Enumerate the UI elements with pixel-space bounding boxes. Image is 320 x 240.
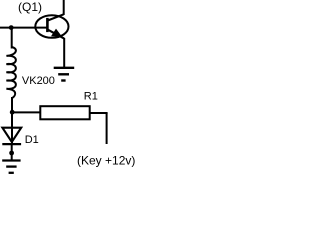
- ground upper (emitter) bar1: [54, 67, 74, 69]
- wire collector vertical to top edge: [63, 0, 65, 15]
- transistor Q1 collector diagonal: [47, 14, 63, 20]
- svg-text:R1: R1: [84, 91, 98, 103]
- wire junction to R1: [12, 111, 41, 113]
- ground lower bar3: [9, 172, 14, 174]
- svg-text:D1: D1: [25, 134, 39, 146]
- transistor Q1 base bar: [46, 18, 49, 32]
- transistor Q1 emitter diagonal: [47, 29, 64, 38]
- wire emitter vertical to ground: [63, 38, 65, 68]
- diode D1 triangle: [2, 128, 21, 142]
- diode D1 cathode bar: [2, 143, 21, 145]
- node junction dot above lower ground: [9, 151, 14, 156]
- transistor Q1 body ellipse: [35, 15, 68, 38]
- node junction dot base/left-rail: [9, 25, 14, 30]
- wire base wire from left edge to transistor base: [0, 27, 47, 29]
- resistor R1 body: [40, 106, 89, 119]
- inductor VK200 coil: [6, 47, 15, 98]
- wire left rail upper segment: [11, 28, 13, 49]
- svg-text:(Key +12v): (Key +12v): [77, 153, 135, 167]
- ground upper bar2: [58, 73, 69, 75]
- wire left rail lower segment: [11, 97, 13, 144]
- wire diode to lower ground: [11, 144, 13, 160]
- wire right vertical down to key: [106, 113, 108, 144]
- svg-text:(Q1): (Q1): [18, 0, 42, 14]
- ground lower bar2: [6, 165, 16, 167]
- ground upper bar3: [61, 79, 65, 81]
- svg-text:VK200: VK200: [22, 75, 55, 87]
- transistor Q1 emitter arrow: [51, 29, 62, 37]
- wire R1 right to corner: [90, 112, 108, 114]
- ground lower bar1: [2, 159, 20, 161]
- node junction dot rail/R1 wire: [10, 110, 15, 115]
